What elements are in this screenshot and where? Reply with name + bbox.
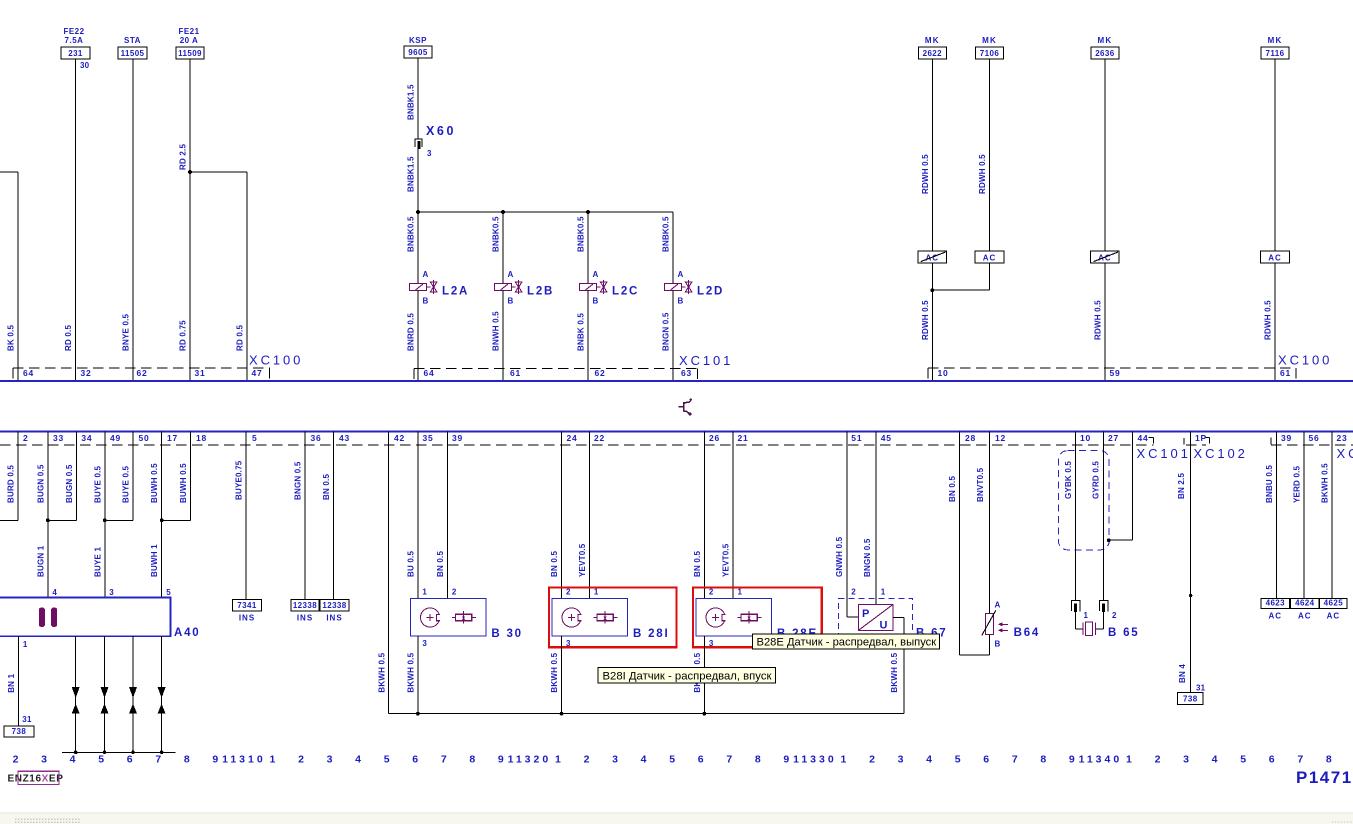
device MK (2622) bbox=[918, 36, 946, 59]
wire BKWH 0.5 from B28E pin 3 to ground bus bbox=[703, 636, 705, 714]
svg-text:BNYE 0.5: BNYE 0.5 bbox=[122, 313, 131, 351]
arrow pair on wire bbox=[101, 687, 109, 714]
svg-text:7341: 7341 bbox=[237, 601, 257, 610]
svg-text:3: 3 bbox=[1183, 754, 1189, 766]
wire label BNBU 0.5 bbox=[1265, 465, 1274, 503]
svg-text:BNBK0.5: BNBK0.5 bbox=[577, 216, 586, 252]
svg-text:3: 3 bbox=[898, 754, 904, 766]
svg-text:6: 6 bbox=[412, 754, 418, 766]
svg-text:BN 0.5: BN 0.5 bbox=[693, 551, 702, 577]
arrow pair on wire bbox=[158, 687, 166, 714]
svg-text:8: 8 bbox=[469, 754, 475, 766]
wire label BUYE 0.5 bbox=[122, 465, 131, 503]
wire label BUWH 1 bbox=[150, 544, 159, 577]
svg-text:7: 7 bbox=[726, 754, 732, 766]
wire label YERD 0.5 bbox=[1292, 465, 1301, 503]
svg-text:x: x bbox=[747, 615, 751, 622]
svg-text:BKWH 0.5: BKWH 0.5 bbox=[377, 652, 386, 692]
wire RDWH 0.5 to XC100 pin 10 bbox=[931, 263, 933, 381]
B67 pin numbers 2 1 bbox=[851, 588, 885, 597]
svg-text:BNGN 0.5: BNGN 0.5 bbox=[294, 461, 303, 500]
svg-text:4: 4 bbox=[355, 754, 361, 766]
svg-text:INS: INS bbox=[239, 614, 255, 623]
sensor label B67 bbox=[916, 628, 948, 640]
svg-text:56: 56 bbox=[1309, 433, 1320, 443]
svg-text:BKWH 0.5: BKWH 0.5 bbox=[406, 652, 415, 692]
wire label BUYE 1 bbox=[93, 547, 102, 577]
svg-text:BURD 0.5: BURD 0.5 bbox=[7, 465, 16, 503]
svg-text:21: 21 bbox=[738, 433, 749, 443]
wire from 11505 to XC100 pin 62 bbox=[132, 59, 134, 381]
svg-text:U: U bbox=[880, 620, 888, 632]
wire BNBU 0.5 pin 39 to 4623 bbox=[1276, 432, 1278, 599]
internal bus wire under A40 bbox=[62, 751, 176, 753]
svg-text:47: 47 bbox=[252, 368, 263, 378]
svg-text:4624: 4624 bbox=[1295, 599, 1315, 608]
svg-text:9: 9 bbox=[212, 754, 218, 766]
wire from A40 to internal bus bbox=[132, 636, 134, 752]
svg-text:2: 2 bbox=[566, 588, 571, 597]
wire label BN 0.5 bbox=[948, 476, 957, 502]
connector XC103 dashed boundary bbox=[1271, 438, 1353, 446]
wire label GYRD 0.5 bbox=[1092, 461, 1101, 499]
svg-text:FE21: FE21 bbox=[178, 27, 199, 36]
svg-text:7: 7 bbox=[155, 754, 161, 766]
connector X60 label bbox=[426, 124, 456, 138]
svg-text:5: 5 bbox=[252, 433, 258, 443]
injector L2C coil and valve bbox=[580, 280, 607, 294]
svg-text:XC101: XC101 bbox=[1137, 446, 1191, 461]
wire BURD 0.5 pin 2 to left edge bbox=[0, 432, 18, 521]
svg-text:2: 2 bbox=[869, 754, 875, 766]
wire label BNBK1.5 bbox=[407, 156, 416, 192]
ground bus wire (bottom) bbox=[388, 713, 904, 715]
svg-text:BUWH 0.5: BUWH 0.5 bbox=[150, 463, 159, 503]
svg-text:2: 2 bbox=[13, 754, 19, 766]
wire from L2D pin B to XC101 bbox=[672, 291, 674, 382]
harness divider line (top) bbox=[0, 380, 1353, 382]
svg-text:BUYE 1: BUYE 1 bbox=[93, 547, 102, 577]
sensor B 28E inductive element bbox=[706, 608, 727, 627]
connector XC101 label (bottom) bbox=[1137, 446, 1191, 461]
wire label BKWH 0.5 bbox=[377, 652, 386, 692]
svg-text:BN 0.5: BN 0.5 bbox=[322, 474, 331, 500]
wire label BN 0.5 bbox=[322, 474, 331, 500]
XC100 pin numbers 64 32 62 31 47 bbox=[23, 368, 263, 378]
svg-text:BUYE 0.5: BUYE 0.5 bbox=[93, 465, 102, 503]
wire label BN 0.5 bbox=[436, 551, 445, 577]
svg-text:BUYE0.75: BUYE0.75 bbox=[235, 460, 244, 500]
svg-text:11310: 11310 bbox=[222, 754, 266, 766]
wire label BNYE 0.5 bbox=[122, 313, 131, 351]
svg-text:59: 59 bbox=[1110, 368, 1121, 378]
svg-text:AC: AC bbox=[1298, 612, 1312, 621]
svg-text:34: 34 bbox=[81, 433, 92, 443]
svg-text:6: 6 bbox=[127, 754, 133, 766]
svg-text:2: 2 bbox=[709, 588, 714, 597]
svg-text:B: B bbox=[678, 297, 684, 306]
svg-text:XC100: XC100 bbox=[249, 353, 303, 368]
svg-text:42: 42 bbox=[394, 433, 405, 443]
node junction of pair bbox=[160, 518, 164, 522]
XC100 right pin numbers 10 59 61 bbox=[938, 368, 1292, 378]
svg-text:3: 3 bbox=[422, 639, 427, 648]
svg-text:12338: 12338 bbox=[322, 601, 346, 610]
wire label BNBK 0.5 bbox=[577, 313, 586, 351]
svg-text:3: 3 bbox=[427, 149, 432, 158]
svg-text:9: 9 bbox=[498, 754, 504, 766]
svg-text:L2D: L2D bbox=[697, 286, 724, 298]
wire label BN 0.5 bbox=[693, 551, 702, 577]
harness divider line (bottom section top) bbox=[0, 431, 1353, 433]
svg-text:4: 4 bbox=[926, 754, 932, 766]
injector L2D coil and valve bbox=[665, 280, 692, 294]
wire RDWH from 7116 to AC box bbox=[1274, 59, 1276, 251]
svg-text:39: 39 bbox=[452, 433, 463, 443]
wire from fuse 231 to XC100 pin 32 bbox=[75, 59, 77, 381]
svg-text:5: 5 bbox=[669, 754, 675, 766]
wire label YEVT0.5 bbox=[722, 543, 731, 577]
svg-text:GYRD 0.5: GYRD 0.5 bbox=[1092, 461, 1101, 499]
svg-text:BU 0.5: BU 0.5 bbox=[406, 551, 415, 577]
svg-text:BK 0.5: BK 0.5 bbox=[7, 325, 16, 351]
wire BNBK0.5 to injector L2A bbox=[417, 212, 419, 284]
svg-text:YERD 0.5: YERD 0.5 bbox=[1292, 465, 1301, 503]
device MK (7116) bbox=[1261, 36, 1289, 59]
svg-text:1: 1 bbox=[422, 588, 427, 597]
svg-text:23: 23 bbox=[1337, 433, 1348, 443]
pin B of L2B bbox=[508, 297, 514, 306]
wire label BN 0.5 bbox=[550, 551, 559, 577]
wire label RDWH 0.5 bbox=[1264, 300, 1273, 340]
svg-text:YEVT0.5: YEVT0.5 bbox=[578, 543, 587, 577]
svg-text:32: 32 bbox=[81, 368, 92, 378]
svg-text:64: 64 bbox=[23, 368, 34, 378]
svg-text:BNBK1.5: BNBK1.5 bbox=[407, 84, 416, 120]
injector label L2B bbox=[527, 286, 554, 298]
bottom window edge band bbox=[0, 813, 1353, 824]
connector XC100 label bbox=[249, 353, 303, 368]
wire label BUWH 0.5 bbox=[150, 463, 159, 503]
svg-text:22: 22 bbox=[594, 433, 605, 443]
B 28I pin number 3 bbox=[566, 639, 571, 648]
svg-text:FE22: FE22 bbox=[63, 27, 84, 36]
svg-text:51: 51 bbox=[851, 433, 862, 443]
wire GYBK 0.5 pin 10 to B65 pin 1 bbox=[1075, 432, 1077, 601]
svg-text:X60: X60 bbox=[426, 124, 456, 138]
svg-text:45: 45 bbox=[881, 433, 892, 443]
svg-text:8: 8 bbox=[184, 754, 190, 766]
svg-text:28: 28 bbox=[965, 433, 976, 443]
X60 pin number 3 bbox=[427, 149, 432, 158]
wire stub to B65 element 1 bbox=[1075, 612, 1077, 629]
svg-text:BUWH 0.5: BUWH 0.5 bbox=[179, 463, 188, 503]
arrow pair on wire bbox=[129, 687, 137, 714]
svg-text:B 28I: B 28I bbox=[633, 628, 670, 640]
svg-text:49: 49 bbox=[110, 433, 121, 443]
B67 dashed housing bbox=[838, 598, 912, 634]
fuse FE21 20A (11509) bbox=[176, 27, 204, 59]
svg-text:BNWH 0.5: BNWH 0.5 bbox=[492, 311, 501, 351]
svg-text:1: 1 bbox=[23, 640, 28, 649]
wire BKWH 0.5 pin 23 to 4625 bbox=[1331, 432, 1333, 599]
wire BKWH 0.5 pin 42 to ground bus bbox=[387, 432, 389, 714]
wire BNGN 0.5 pin 36 to 12338 bbox=[304, 432, 306, 600]
wire BN 0.5 pin 28 to B64 pin B bbox=[960, 432, 990, 656]
highlight box around B28I bbox=[549, 588, 676, 648]
wire label BUYE0.75 bbox=[235, 460, 244, 500]
svg-text:BN 0.5: BN 0.5 bbox=[550, 551, 559, 577]
wire BK0.5 from left edge to connector XC100 pin 64 bbox=[0, 172, 18, 381]
svg-text:1P: 1P bbox=[1195, 433, 1207, 443]
svg-text:12: 12 bbox=[995, 433, 1006, 443]
connector 4625 (AC) bbox=[1320, 598, 1348, 620]
device MK (2636) bbox=[1091, 36, 1119, 59]
injector label L2D bbox=[697, 286, 724, 298]
highlight box around B28E bbox=[693, 588, 822, 648]
engine code highlight box bbox=[18, 771, 59, 784]
svg-text:L2B: L2B bbox=[527, 286, 554, 298]
svg-text:RD 0.75: RD 0.75 bbox=[179, 320, 188, 351]
bottom pin numbers row bbox=[23, 433, 1348, 443]
svg-text:x: x bbox=[603, 615, 607, 622]
svg-text:1: 1 bbox=[555, 754, 561, 766]
svg-text:INS: INS bbox=[297, 614, 313, 623]
wire YEVT0.5 pin 22 to B28I pin 1 bbox=[588, 432, 590, 599]
wire label BK 0.5 bbox=[7, 325, 16, 351]
pin B of L2C bbox=[593, 297, 599, 306]
svg-text:2: 2 bbox=[298, 754, 304, 766]
inline connector AC under 2636 (crossed) bbox=[1091, 251, 1120, 263]
svg-text:3: 3 bbox=[41, 754, 47, 766]
node junction on ground bus bbox=[703, 712, 707, 716]
node junction A bbox=[416, 210, 420, 214]
wire BN 0.5 pin 26 to B28E pin 2 bbox=[703, 432, 705, 599]
engine code ENZ16XEP bbox=[8, 774, 64, 785]
svg-text:35: 35 bbox=[423, 433, 434, 443]
svg-text:A: A bbox=[508, 270, 514, 279]
svg-text:7: 7 bbox=[1297, 754, 1303, 766]
svg-text:7116: 7116 bbox=[1266, 49, 1285, 58]
svg-text:1: 1 bbox=[1126, 754, 1132, 766]
svg-text:1: 1 bbox=[841, 754, 847, 766]
svg-text:BNBU 0.5: BNBU 0.5 bbox=[1265, 465, 1274, 503]
wire label BUWH 0.5 bbox=[179, 463, 188, 503]
terminal 31 label bbox=[1196, 684, 1206, 693]
svg-text:MK: MK bbox=[1097, 36, 1112, 45]
wire label RDWH 0.5 bbox=[921, 154, 930, 194]
svg-text:BN 0.5: BN 0.5 bbox=[436, 551, 445, 577]
svg-text:B28I Датчик - распредвал, впус: B28I Датчик - распредвал, впуск bbox=[603, 671, 772, 683]
svg-text:BNBK1.5: BNBK1.5 bbox=[407, 156, 416, 192]
A40 pin number 3 bbox=[109, 588, 114, 597]
wire BUYE 1 to A40 pin 3 bbox=[104, 432, 106, 598]
mouse cursor mark bbox=[679, 399, 693, 416]
shield drain wire to pin 44 bbox=[1109, 432, 1133, 541]
A40 pin number 5 bbox=[166, 588, 171, 597]
wire RDWH from 7106 to AC box bbox=[989, 59, 991, 251]
svg-text:6: 6 bbox=[983, 754, 989, 766]
sensor label B65 bbox=[1108, 627, 1140, 639]
svg-text:2: 2 bbox=[452, 588, 457, 597]
svg-text:A: A bbox=[593, 270, 599, 279]
wire BUYE0.75 pin 5 to 7341 bbox=[245, 432, 247, 600]
svg-text:33: 33 bbox=[53, 433, 64, 443]
svg-text:12338: 12338 bbox=[293, 601, 317, 610]
svg-text:A: A bbox=[423, 270, 429, 279]
sensor B 28E box bbox=[696, 598, 772, 636]
svg-text:2: 2 bbox=[584, 754, 590, 766]
svg-text:2: 2 bbox=[851, 588, 856, 597]
wire branch RD 0.5 to XC100 pin 47 bbox=[190, 172, 247, 381]
inline connector AC under 7116 bbox=[1261, 251, 1290, 263]
pin A of L2D bbox=[678, 270, 684, 279]
wire RDWH 0.5 to XC100 pin 59 bbox=[1104, 263, 1106, 381]
svg-text:BNVT0.5: BNVT0.5 bbox=[976, 467, 985, 502]
svg-text:BUGN 0.5: BUGN 0.5 bbox=[36, 464, 45, 503]
wire label BKWH 0.5 bbox=[890, 652, 899, 692]
wire BKWH 0.5 from B67 to ground bus bbox=[903, 617, 905, 713]
wire BUYE 0.5 joining pair bbox=[105, 432, 133, 521]
svg-text:7106: 7106 bbox=[980, 49, 1000, 58]
device 12338 (INS) a bbox=[291, 600, 319, 623]
svg-text:XC100: XC100 bbox=[1278, 353, 1332, 368]
ECU A40 box bbox=[0, 598, 171, 637]
svg-text:8: 8 bbox=[1040, 754, 1046, 766]
sensor B 30 inductive element bbox=[421, 608, 442, 627]
svg-text:BNBK0.5: BNBK0.5 bbox=[407, 216, 416, 252]
wire label BN 4 bbox=[1178, 664, 1187, 683]
wire RDWH from 2636 to AC box bbox=[1104, 59, 1106, 251]
wire BN 0.5 pin 43 to 12338 bbox=[333, 432, 335, 600]
svg-text:11505: 11505 bbox=[121, 49, 145, 58]
B64 thermistor body bbox=[982, 610, 996, 635]
svg-text:BKWH 0.5: BKWH 0.5 bbox=[1320, 463, 1329, 503]
svg-text:BN 2.5: BN 2.5 bbox=[1177, 473, 1186, 499]
svg-text:63: 63 bbox=[681, 368, 692, 378]
wire label BNBK0.5 bbox=[492, 216, 501, 252]
wire label BUYE 0.5 bbox=[93, 465, 102, 503]
svg-text:STA: STA bbox=[124, 36, 141, 45]
node junction on bus bbox=[103, 751, 107, 755]
B65 pin number 1 bbox=[1084, 611, 1089, 620]
connector XC100 (top left) dashed boundary bbox=[13, 368, 270, 379]
svg-text:31: 31 bbox=[195, 368, 206, 378]
page number P1471 bbox=[1296, 768, 1353, 787]
sensor B 28I resistive element bbox=[594, 611, 618, 624]
svg-text:4625: 4625 bbox=[1324, 599, 1344, 608]
wire BNVT0.5 pin 12 to B64 pin A bbox=[988, 432, 990, 614]
wire label BNVT0.5 bbox=[976, 467, 985, 502]
svg-text:11340: 11340 bbox=[1079, 754, 1123, 766]
svg-text:MK: MK bbox=[982, 36, 997, 45]
svg-text:A: A bbox=[678, 270, 684, 279]
device MK (7106) bbox=[976, 36, 1004, 59]
injector feed bus wire bbox=[418, 211, 673, 213]
B67 P/U transducer bbox=[859, 604, 894, 631]
svg-text:231: 231 bbox=[68, 49, 83, 58]
wire label BKWH 0.5 bbox=[550, 652, 559, 692]
svg-text:RDWH 0.5: RDWH 0.5 bbox=[1093, 300, 1102, 340]
wire label RD 0.75 bbox=[179, 320, 188, 351]
wire from A40 to internal bus bbox=[104, 636, 106, 752]
svg-text:MK: MK bbox=[925, 36, 940, 45]
connector XC101 (top) dashed boundary bbox=[414, 368, 697, 379]
wire label RDWH 0.5 bbox=[921, 300, 930, 340]
sensor B 30 resistive element bbox=[452, 611, 476, 624]
svg-text:3: 3 bbox=[612, 754, 618, 766]
svg-text:6: 6 bbox=[1269, 754, 1275, 766]
svg-text:7: 7 bbox=[1012, 754, 1018, 766]
wire BN 2.5 pin 1P to ground 738 bbox=[1190, 432, 1192, 693]
svg-text:RDWH 0.5: RDWH 0.5 bbox=[921, 154, 930, 194]
wire RDWH 0.5 to XC100 pin 61 bbox=[1274, 263, 1276, 381]
svg-text:2636: 2636 bbox=[1095, 49, 1115, 58]
wire label RD 0.5 bbox=[64, 325, 73, 351]
B65 piezo element bbox=[1076, 622, 1104, 635]
tooltip B28E description bbox=[752, 634, 939, 649]
splice node on BN wire bbox=[1189, 594, 1192, 597]
svg-text:36: 36 bbox=[311, 433, 322, 443]
svg-text:XC103: XC103 bbox=[1337, 446, 1353, 461]
svg-text:YEVT0.5: YEVT0.5 bbox=[722, 543, 731, 577]
XC101 pin numbers 64 61 62 63 bbox=[424, 368, 693, 378]
svg-text:5: 5 bbox=[166, 588, 171, 597]
svg-text:31: 31 bbox=[1196, 684, 1206, 693]
wire BU 0.5 pin 35 to B30 pin 1 bbox=[417, 432, 419, 599]
sensor label B64 bbox=[1014, 627, 1041, 639]
svg-text:BNGN 0.5: BNGN 0.5 bbox=[863, 538, 872, 577]
svg-text:BNBK 0.5: BNBK 0.5 bbox=[577, 313, 586, 351]
node junction B bbox=[501, 210, 505, 214]
svg-text:2: 2 bbox=[1112, 611, 1117, 620]
wire label BN 1 bbox=[7, 673, 16, 692]
sensor label B 30 bbox=[491, 628, 523, 640]
svg-text:A40: A40 bbox=[174, 627, 201, 639]
ground point 738 (left) bbox=[4, 726, 34, 737]
wire RDWH from 2622 to AC box bbox=[931, 59, 933, 251]
node junction of pair bbox=[103, 518, 107, 522]
svg-text:RDWH 0.5: RDWH 0.5 bbox=[1264, 300, 1273, 340]
svg-text:9: 9 bbox=[1069, 754, 1075, 766]
wire label BNBK1.5 bbox=[407, 84, 416, 120]
wire BN 1 from A40 pin 1 to ground 738 bbox=[17, 636, 19, 726]
ECU label A40 bbox=[174, 627, 201, 639]
svg-text:4: 4 bbox=[52, 588, 57, 597]
wire label BNBK0.5 bbox=[577, 216, 586, 252]
injector label L2C bbox=[612, 286, 639, 298]
svg-text:L2A: L2A bbox=[442, 286, 469, 298]
svg-text:BNRD 0.5: BNRD 0.5 bbox=[407, 313, 416, 351]
sensor label B 28I bbox=[633, 628, 670, 640]
svg-text:BNBK0.5: BNBK0.5 bbox=[492, 216, 501, 252]
B30 pin numbers 1 2 bbox=[422, 588, 457, 597]
svg-text:9: 9 bbox=[783, 754, 789, 766]
svg-text:A: A bbox=[995, 601, 1001, 610]
svg-text:B: B bbox=[995, 640, 1001, 649]
wire label BKWH 0.5 bbox=[1320, 463, 1329, 503]
wire label GNWH 0.5 bbox=[835, 536, 844, 577]
svg-text:ENZ16XEP: ENZ16XEP bbox=[8, 774, 64, 785]
node junction on bus bbox=[131, 751, 135, 755]
wire from A40 to internal bus bbox=[75, 636, 77, 752]
svg-text:BUWH 1: BUWH 1 bbox=[150, 544, 159, 577]
svg-text:B28E Датчик - распредвал, выпу: B28E Датчик - распредвал, выпуск bbox=[757, 637, 937, 649]
shield around GY pair bbox=[1058, 451, 1109, 550]
svg-text:AC: AC bbox=[1327, 612, 1341, 621]
injector label L2A bbox=[442, 286, 469, 298]
wire BNBK0.5 to injector L2C bbox=[587, 212, 589, 284]
